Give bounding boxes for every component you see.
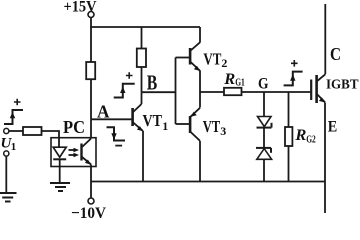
resistor (input series) xyxy=(23,127,42,135)
pulse symbol at A (negative step) xyxy=(107,127,126,140)
minus sign of A pulse xyxy=(115,145,122,147)
wire: node A to PC collector xyxy=(90,119,92,137)
light arrow 2 xyxy=(69,154,77,156)
svg-text:VT: VT xyxy=(203,117,221,136)
svg-text:VT: VT xyxy=(143,111,163,130)
IGBT body bar xyxy=(315,75,318,103)
wire: input terminal to resistor xyxy=(9,130,23,132)
svg-text:−10V: −10V xyxy=(71,205,106,219)
transistor VT3 collector xyxy=(190,132,200,141)
svg-text:G: G xyxy=(258,76,269,93)
wire: left vertical +15V to R1 xyxy=(90,27,92,62)
pulse symbol at B (positive step) xyxy=(114,84,135,98)
wire: R2 vertical from rail xyxy=(141,27,143,49)
wire: rail to -10V terminal xyxy=(90,182,92,199)
light arrow 1 xyxy=(69,149,77,151)
IGBT emitter lead xyxy=(317,94,325,103)
wire: VT2 emitter to VT3 emitter xyxy=(199,71,201,108)
zener diode (upper, cathode down) xyxy=(258,117,272,127)
phototransistor base bar xyxy=(80,144,82,161)
transistor VT3 base bar xyxy=(189,116,192,133)
svg-text:3: 3 xyxy=(220,124,226,138)
wire: zener branch bottom xyxy=(263,160,265,182)
svg-text:VT: VT xyxy=(203,50,221,69)
svg-text:IGBT: IGBT xyxy=(326,78,359,93)
input terminal U1 top xyxy=(4,128,9,133)
svg-text:E: E xyxy=(328,119,338,136)
transistor VT2 emitter xyxy=(190,62,200,71)
wire: VT1 emitter to rail xyxy=(142,131,144,182)
wire: base line of VT2/VT3 xyxy=(175,58,177,125)
wire: RG2 branch bottom xyxy=(288,146,290,182)
wire: R2 bottom to node B junction xyxy=(141,67,143,92)
transistor VT1 collector xyxy=(133,104,142,113)
plus sign of B pulse xyxy=(126,72,133,79)
wire: bottom terminal to ground xyxy=(5,156,7,192)
wire: VT3 collector to bottom rail xyxy=(199,141,201,182)
transistor VT2 base bar xyxy=(189,48,192,65)
LED cathode lead through box xyxy=(59,159,61,166)
wire: LED cathode to ground xyxy=(59,167,61,184)
wire: VT2 base lead xyxy=(176,57,190,59)
terminal -10V xyxy=(88,198,94,204)
wire: node B to VT1 collector xyxy=(141,92,143,104)
resistor R2 (pull-up to node B) xyxy=(137,49,146,68)
wire: RG2 branch top xyxy=(288,92,290,127)
phototransistor emitter xyxy=(82,157,92,165)
resistor RG2 xyxy=(285,127,292,146)
zener diode (lower, cathode up) xyxy=(257,149,272,160)
transistor VT2 collector xyxy=(190,42,200,51)
wire: IGBT emitter vertical xyxy=(324,103,326,214)
pulse symbol at U1 (positive step) xyxy=(4,110,23,124)
svg-text:1: 1 xyxy=(162,119,168,133)
wire: zener branch top xyxy=(263,92,265,117)
IGBT gate bar xyxy=(310,80,312,101)
svg-text:C: C xyxy=(330,44,341,64)
wire: top +15V rail xyxy=(90,26,200,28)
ground (input side) xyxy=(0,192,17,194)
resistor RG1 xyxy=(224,88,242,95)
input terminal U1 bottom xyxy=(4,151,9,156)
svg-text:1: 1 xyxy=(11,141,16,153)
transistor VT1 emitter xyxy=(133,122,143,131)
ground (below PC) xyxy=(50,182,70,184)
wire: +15V drop to rail xyxy=(90,18,92,28)
plus sign of U1 pulse xyxy=(14,99,21,106)
IGBT collector lead xyxy=(317,74,326,81)
svg-text:R: R xyxy=(294,127,306,144)
wire: bottom -10V rail xyxy=(91,181,325,183)
terminal +15V xyxy=(88,12,94,18)
LED cathode bar xyxy=(53,158,66,160)
svg-text:2: 2 xyxy=(221,56,227,70)
svg-text:+15V: +15V xyxy=(64,0,97,16)
wire: PC emitter to rail xyxy=(90,165,92,182)
optocoupler PC box xyxy=(51,138,96,167)
svg-text:A: A xyxy=(97,102,110,122)
wire: output node to RG1 xyxy=(200,91,224,93)
wire: RG1 to IGBT gate xyxy=(242,91,311,93)
wire: node A lead to VT1 base xyxy=(91,118,132,120)
transistor VT3 emitter (arrow into bar, PNP) xyxy=(191,108,200,117)
wire: between zeners xyxy=(263,128,265,148)
wire: VT3 base lead xyxy=(176,123,190,125)
pulse symbol at G (positive step) xyxy=(284,72,303,86)
resistor R1 (pull-up to node A) xyxy=(86,62,95,79)
plus sign of G pulse xyxy=(291,60,298,67)
svg-text:R: R xyxy=(223,71,235,88)
svg-text:G2: G2 xyxy=(306,134,316,145)
wire: R1 bottom to node A xyxy=(90,79,92,119)
LED of PC: anode lead xyxy=(58,138,60,147)
LED triangle xyxy=(53,147,66,157)
wire: IGBT collector vertical xyxy=(324,4,326,74)
svg-text:PC: PC xyxy=(63,117,85,137)
phototransistor collector xyxy=(82,138,91,148)
wire: node B lead to VT2/VT3 bases xyxy=(142,91,176,93)
svg-text:G1: G1 xyxy=(235,77,245,88)
transistor VT1 base bar xyxy=(131,108,134,126)
wire: VT2 collector vertical xyxy=(199,27,201,43)
wire: input resistor to PC LED xyxy=(42,131,60,138)
svg-text:B: B xyxy=(147,71,158,95)
